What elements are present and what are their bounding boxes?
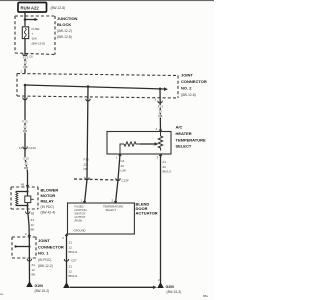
potentiometer vertical resistor xyxy=(158,132,162,151)
svg-text:SELECT: SELECT xyxy=(176,144,192,149)
svg-text:F13: F13 xyxy=(158,105,164,109)
svg-text:Z1: Z1 xyxy=(163,160,167,164)
svg-text:DB: DB xyxy=(158,114,162,118)
svg-text:ACTUATOR: ACTUATOR xyxy=(136,211,158,216)
svg-text:BLOCK: BLOCK xyxy=(57,22,71,27)
jc1 internal bus xyxy=(15,246,29,248)
svg-text:2: 2 xyxy=(112,199,114,203)
svg-text:(8W-42-4): (8W-42-4) xyxy=(41,211,56,215)
svg-text:BK/LG: BK/LG xyxy=(69,274,79,278)
svg-text:05s: 05s xyxy=(203,294,208,298)
svg-text:TEMPERATURE: TEMPERATURE xyxy=(103,205,123,209)
wiper arrow xyxy=(155,142,159,145)
svg-text:C07: C07 xyxy=(71,259,77,263)
svg-text:F13: F13 xyxy=(23,56,29,60)
svg-text:FUSE: FUSE xyxy=(32,27,40,31)
svg-text:4: 4 xyxy=(62,236,64,240)
svg-text:22: 22 xyxy=(24,60,28,64)
wire jc2 down to temp select xyxy=(159,89,162,132)
svg-text:(8W-12-8): (8W-12-8) xyxy=(57,35,72,39)
svg-text:JUNCTION: JUNCTION xyxy=(57,16,78,21)
svg-text:C6: C6 xyxy=(29,55,33,59)
svg-text:2: 2 xyxy=(21,70,23,74)
svg-text:C4: C4 xyxy=(121,159,125,163)
bus wire inside joint connector 2 xyxy=(25,85,164,89)
svg-text:(8W-12-8): (8W-12-8) xyxy=(51,6,66,10)
actuator connector line C22F xyxy=(74,179,119,180)
svg-text:22: 22 xyxy=(24,161,28,165)
wire temp select to actuator xyxy=(118,154,120,180)
relay internal wiring xyxy=(27,187,29,196)
svg-text:2: 2 xyxy=(158,278,160,282)
feed branch arrow xyxy=(25,19,35,21)
in-line connector C13A xyxy=(23,147,28,149)
svg-text:SELECT: SELECT xyxy=(106,208,117,212)
svg-text:L/W: L/W xyxy=(121,169,127,173)
svg-text:BK: BK xyxy=(31,228,35,232)
svg-text:(8W-12-8): (8W-12-8) xyxy=(32,41,45,45)
svg-text:15: 15 xyxy=(19,146,23,150)
relay coil xyxy=(16,192,18,206)
ground run to G200 xyxy=(63,282,70,288)
svg-text:FUSED: FUSED xyxy=(75,205,84,209)
svg-text:12: 12 xyxy=(32,268,36,272)
svg-text:Z1: Z1 xyxy=(69,265,73,269)
svg-text:RELAY: RELAY xyxy=(41,199,55,204)
svg-text:NO. 1: NO. 1 xyxy=(38,251,49,256)
svg-text:2: 2 xyxy=(25,232,27,236)
RUN A22 feed box xyxy=(18,3,47,13)
svg-text:Z1: Z1 xyxy=(69,241,73,245)
svg-text:1: 1 xyxy=(116,156,118,160)
svg-text:BK: BK xyxy=(32,273,36,277)
svg-text:RUN A22: RUN A22 xyxy=(21,5,40,10)
svg-text:CONNECTOR: CONNECTOR xyxy=(181,79,207,84)
svg-text:DB: DB xyxy=(84,167,88,171)
svg-text:(8W-12-8): (8W-12-8) xyxy=(181,93,196,97)
svg-text:MOTOR: MOTOR xyxy=(41,193,56,198)
svg-text:4: 4 xyxy=(156,127,158,131)
node branch to actuator xyxy=(87,85,90,88)
svg-text:F13: F13 xyxy=(22,120,28,124)
svg-text:12: 12 xyxy=(69,269,73,273)
svg-text:CONNECTOR: CONNECTOR xyxy=(38,244,64,249)
svg-text:12: 12 xyxy=(69,245,73,249)
svg-text:TEMPERATURE: TEMPERATURE xyxy=(176,137,206,142)
junction block dashed box xyxy=(15,16,55,55)
svg-text:(8W-12-2): (8W-12-2) xyxy=(38,264,53,268)
blower motor relay dashed box xyxy=(11,187,38,209)
svg-text:10A: 10A xyxy=(32,37,37,41)
relay resistor xyxy=(25,196,31,203)
svg-text:(8W-15-2): (8W-15-2) xyxy=(35,289,50,293)
svg-text:(8W-12-2): (8W-12-2) xyxy=(57,29,72,33)
svg-text:SWITCH: SWITCH xyxy=(75,212,86,216)
connector mark below jc1 xyxy=(27,259,31,261)
svg-text:22: 22 xyxy=(84,162,88,166)
wire RUN A22 to fuse xyxy=(24,12,26,26)
blend door actuator box xyxy=(68,203,135,234)
wiper resistor horizontal xyxy=(120,142,140,154)
fuse F7 xyxy=(22,27,28,39)
svg-text:C22F: C22F xyxy=(122,179,130,183)
wire through joint connector 1 xyxy=(28,237,30,282)
connector mark below relay xyxy=(26,212,30,214)
svg-text:22: 22 xyxy=(159,109,163,113)
connector mark exit jc2 xyxy=(86,99,90,101)
svg-text:vs: vs xyxy=(0,292,4,296)
node at feed branch xyxy=(24,18,27,21)
svg-text:20: 20 xyxy=(121,164,125,168)
svg-text:(8W-15-3): (8W-15-3) xyxy=(167,290,182,294)
svg-text:IGNITION: IGNITION xyxy=(75,208,87,212)
svg-text:Z1: Z1 xyxy=(31,218,35,222)
svg-text:20: 20 xyxy=(163,165,167,169)
svg-text:DB: DB xyxy=(24,166,28,170)
ground G200 xyxy=(157,282,164,288)
svg-text:DB: DB xyxy=(23,129,27,133)
svg-text:BLOWER: BLOWER xyxy=(41,188,59,193)
svg-text:(IN PDC): (IN PDC) xyxy=(38,258,51,262)
node at left bus junction xyxy=(24,84,27,87)
wire C13A to relay xyxy=(25,148,28,187)
svg-text:22: 22 xyxy=(23,124,27,128)
svg-text:7: 7 xyxy=(32,32,34,36)
svg-text:3: 3 xyxy=(157,156,159,160)
svg-text:Z1: Z1 xyxy=(32,263,36,267)
svg-text:F13: F13 xyxy=(84,158,90,162)
wire relay to joint connector 1 xyxy=(28,209,30,237)
wire fuse to junction block exit xyxy=(24,39,26,74)
svg-text:BK/LG: BK/LG xyxy=(69,250,79,254)
joint connector no.1 dashed box xyxy=(12,237,36,258)
svg-text:3: 3 xyxy=(155,98,157,102)
svg-text:BK/LG: BK/LG xyxy=(163,170,173,174)
svg-text:GROUND: GROUND xyxy=(74,229,86,233)
pins 1 and 2 into actuator xyxy=(85,180,88,204)
svg-text:JOINT: JOINT xyxy=(38,238,50,243)
a/c heater temperature select box xyxy=(107,132,171,155)
in-line connector C07 xyxy=(64,259,68,261)
joint connector no.2 dashed box xyxy=(17,74,178,99)
page top edge scan line xyxy=(0,0,214,1)
svg-text:1: 1 xyxy=(81,199,83,203)
wire main down to C13A xyxy=(24,85,26,148)
svg-text:86: 86 xyxy=(21,183,25,187)
svg-text:C13A: C13A xyxy=(29,146,37,150)
connector mark at junction block exit xyxy=(23,54,27,56)
svg-text:G100: G100 xyxy=(35,284,44,288)
svg-text:G200: G200 xyxy=(166,285,175,289)
svg-text:HEATER: HEATER xyxy=(176,131,192,136)
svg-text:F13: F13 xyxy=(24,157,30,161)
svg-text:12: 12 xyxy=(31,223,35,227)
actuator ground wire xyxy=(66,234,68,284)
svg-text:(RUN): (RUN) xyxy=(75,219,83,223)
wire temp select ground to G200 xyxy=(160,154,162,283)
pin chevron marks xyxy=(26,130,162,238)
svg-text:JOINT: JOINT xyxy=(181,73,193,78)
svg-text:OUTPUT: OUTPUT xyxy=(75,215,86,219)
svg-text:85: 85 xyxy=(31,212,35,216)
ground G100 xyxy=(26,281,33,287)
svg-text:DB: DB xyxy=(23,65,27,69)
wire jc2 down to blend door actuator xyxy=(87,87,88,180)
svg-text:(IN PDC): (IN PDC) xyxy=(41,205,54,209)
node branch to temp select xyxy=(159,88,162,91)
connector mark exit jc2 xyxy=(158,101,162,103)
connector mark exit jc2 xyxy=(23,98,27,100)
svg-text:NO. 2: NO. 2 xyxy=(181,86,192,91)
svg-text:A/C: A/C xyxy=(176,125,183,130)
